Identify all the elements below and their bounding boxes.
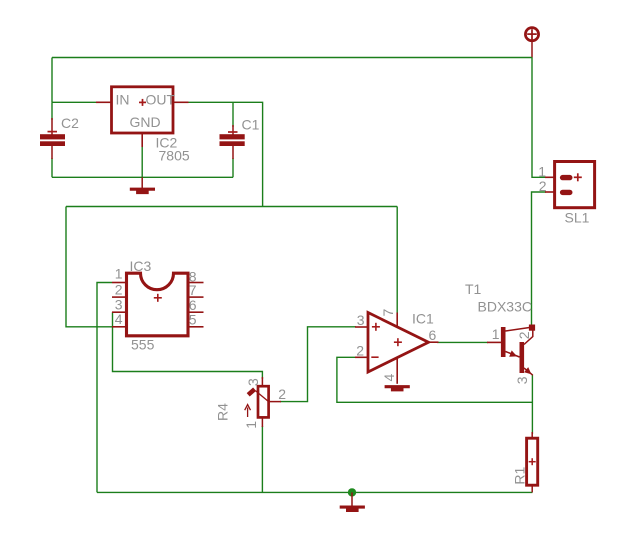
T1 first base bar — [501, 327, 506, 357]
IC3 pin 6 lead — [188, 311, 204, 313]
R4 wiper arrowhead — [248, 389, 254, 395]
wire R4 pin2 to IC1 pin3 — [280, 327, 356, 402]
R4 pin 2 wiper lead — [269, 401, 281, 403]
svg-text:7805: 7805 — [159, 147, 190, 163]
svg-text:7: 7 — [189, 282, 197, 298]
IC3 pin 1 lead — [112, 282, 127, 284]
R4 adjust arrow — [247, 408, 249, 418]
C2 polarity plus mark — [48, 131, 58, 133]
wire T1 emitter drop to R1 — [531, 375, 533, 434]
SL1 pin 2 contact pill — [560, 190, 573, 195]
IC2 body — [112, 87, 174, 133]
power supply symbol P+ — [525, 28, 538, 58]
timer IC3 555 — [112, 258, 204, 352]
svg-text:1: 1 — [243, 421, 259, 429]
svg-text:IC3: IC3 — [130, 258, 152, 274]
transistor T1 BDX33C — [465, 281, 535, 384]
IC1 pin 2 lead — [355, 356, 368, 358]
IC3 pin 8 lead — [188, 282, 204, 284]
wire power rail to SL1 pin1 — [532, 58, 546, 178]
svg-text:2: 2 — [516, 331, 532, 339]
svg-text:7: 7 — [380, 309, 396, 317]
svg-text:3: 3 — [115, 296, 123, 312]
IC2 GND pin lead — [141, 133, 143, 147]
svg-text:4: 4 — [381, 374, 397, 382]
C1 plates — [220, 134, 245, 139]
svg-text:1: 1 — [538, 163, 546, 179]
svg-text:GND: GND — [130, 114, 161, 130]
wire IC3 pin3 to R4 pin3 — [113, 312, 263, 379]
svg-text:C2: C2 — [61, 115, 79, 131]
C1 bottom lead — [232, 146, 234, 159]
T1 collector stroke — [506, 328, 530, 332]
wire bottom rail — [97, 491, 532, 493]
IC2 OUT pin lead — [173, 101, 189, 103]
voltage regulator IC2 7805 — [96, 87, 190, 164]
op-amp IC1 — [355, 309, 439, 384]
svg-text:6: 6 — [189, 297, 197, 313]
wire SL1 pin2 drop to T1 collector — [532, 192, 547, 325]
svg-text:T1: T1 — [465, 281, 482, 297]
wire left drop to IN node — [51, 58, 53, 103]
SL1 polarity plus mark — [574, 176, 582, 178]
IC3 pin 7 lead — [188, 296, 204, 298]
svg-text:6: 6 — [429, 327, 437, 343]
wire mid rail — [66, 206, 397, 208]
svg-text:1: 1 — [492, 326, 500, 342]
wire IC1 pin6 to T1 base — [437, 341, 488, 343]
svg-text:BDX33C: BDX33C — [478, 299, 532, 315]
wire left mid drop to IC3 pin4 — [66, 207, 112, 327]
wire IC1 pin2 feedback run — [337, 357, 533, 402]
svg-text:C1: C1 — [242, 116, 260, 132]
IC1 origin cross — [394, 341, 402, 343]
C2 bottom lead — [51, 146, 53, 159]
C1 polarity plus mark — [228, 131, 238, 133]
IC2 IN pin lead — [96, 101, 112, 103]
svg-text:IN: IN — [116, 91, 130, 107]
IC3 origin cross — [157, 294, 159, 302]
R1 origin cross — [529, 461, 536, 463]
wire top rail — [52, 57, 532, 59]
svg-text:R4: R4 — [215, 403, 231, 421]
SL1 pin 1 lead — [545, 176, 555, 178]
svg-text:2: 2 — [356, 343, 364, 359]
connector SL1 — [538, 162, 594, 226]
R1 top lead — [531, 432, 533, 438]
SL1 pin 2 lead — [545, 191, 555, 193]
wire node to IC2 IN — [52, 101, 97, 103]
svg-text:OUT: OUT — [146, 91, 176, 107]
svg-text:IC1: IC1 — [412, 310, 434, 326]
ground under IC1 pin4 — [385, 385, 410, 391]
T1 collector junction square — [529, 325, 535, 331]
wire C1 top branch — [232, 102, 234, 127]
IC1 pin 4 lead — [396, 357, 398, 384]
svg-text:SL1: SL1 — [565, 209, 590, 225]
resistor R1 — [512, 432, 538, 492]
wire IC2 GND drop — [141, 145, 143, 177]
IC3 pin 3 lead — [112, 311, 127, 313]
T1 second base bar — [520, 342, 525, 373]
potentiometer R4 — [215, 377, 287, 429]
wire IC2 OUT run — [187, 102, 263, 206]
R4 pin 1 lead — [261, 417, 263, 427]
svg-text:2: 2 — [278, 386, 286, 402]
IC3 pin 4 lead — [112, 326, 127, 328]
svg-text:2: 2 — [115, 281, 123, 297]
svg-text:3: 3 — [245, 378, 261, 386]
C2 top lead — [51, 118, 53, 135]
R1 body — [527, 438, 538, 485]
wire R4 pin1 drop — [261, 426, 263, 492]
wire C2 bottom branch — [51, 158, 53, 177]
svg-text:555: 555 — [131, 337, 155, 353]
IC3 pin 2 lead — [112, 296, 127, 298]
svg-text:4: 4 — [115, 311, 123, 327]
R1 bottom lead — [531, 485, 533, 492]
SL1 pin 1 contact pill — [560, 175, 573, 180]
svg-text:3: 3 — [514, 376, 530, 384]
SL1 body — [555, 162, 595, 208]
svg-text:2: 2 — [539, 178, 547, 194]
R4 pin 3 lead — [261, 377, 263, 386]
wire C1 bottom branch — [232, 158, 234, 177]
wire IC3 pin1 drop — [97, 283, 112, 493]
IC1 triangle body — [368, 313, 429, 373]
IC2 origin cross — [142, 99, 144, 106]
ground bottom center — [340, 492, 365, 512]
svg-text:R1: R1 — [512, 466, 528, 484]
wire C2 top branch — [51, 102, 53, 120]
T1 first emitter stroke with arrow — [506, 352, 520, 358]
IC1 noninverting plus mark — [372, 326, 380, 328]
IC1 pin 6 lead — [429, 341, 439, 343]
capacitor C1 — [220, 116, 260, 159]
wire V+ drop to IC1 pin7 — [396, 207, 398, 315]
C1 top lead — [232, 125, 234, 135]
IC1 pin 3 lead — [355, 326, 368, 328]
wire bottom-left rail — [52, 176, 233, 178]
svg-text:1: 1 — [115, 265, 123, 281]
junction dot bottom rail — [348, 488, 356, 496]
IC3 body with notch — [127, 273, 189, 336]
T1 base pin lead — [487, 341, 501, 343]
svg-text:3: 3 — [357, 312, 365, 328]
IC1 pin 7 lead — [396, 313, 398, 328]
capacitor C2 — [40, 115, 79, 159]
ground under IC2 — [130, 177, 155, 194]
svg-text:5: 5 — [189, 312, 197, 328]
C2 plates — [40, 134, 65, 139]
R4 wiper diagonal — [256, 391, 269, 402]
R4 body — [258, 386, 269, 417]
IC1 inverting minus mark — [371, 356, 378, 358]
T1 emitter stroke with arrow — [524, 368, 533, 375]
IC3 pin 5 lead — [188, 326, 204, 328]
